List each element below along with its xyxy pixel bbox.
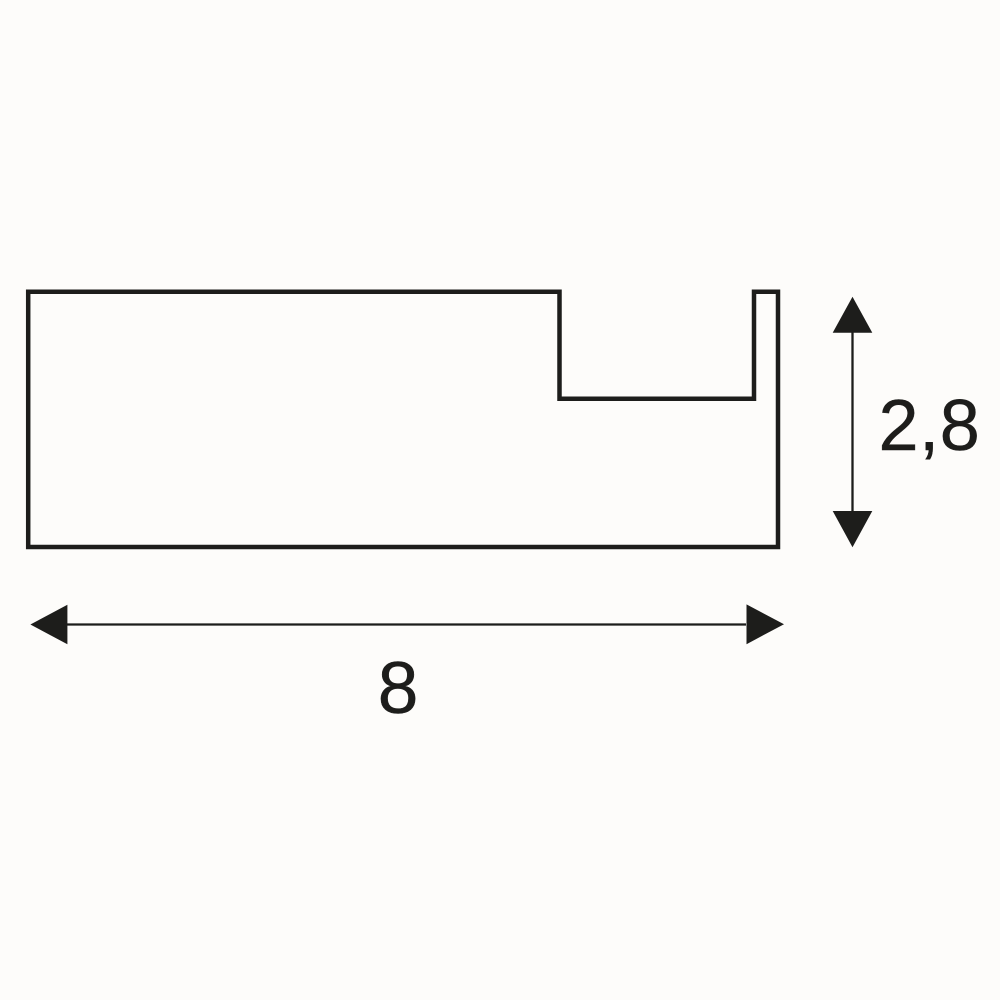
profile outline (channel cross-section): [28, 292, 778, 547]
vertical dimension arrow (2,8): [833, 297, 873, 547]
svg-text:8: 8: [378, 648, 419, 729]
svg-text:2,8: 2,8: [879, 386, 981, 466]
horizontal dimension arrow (8): [30, 604, 784, 644]
